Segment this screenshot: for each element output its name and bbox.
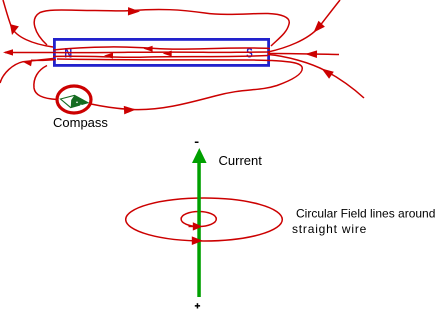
svg-text:straight wire: straight wire xyxy=(292,222,367,236)
svg-text:Circular Field lines around: Circular Field lines around xyxy=(296,207,435,221)
svg-text:Compass: Compass xyxy=(53,115,108,130)
svg-text:Current: Current xyxy=(219,153,263,168)
